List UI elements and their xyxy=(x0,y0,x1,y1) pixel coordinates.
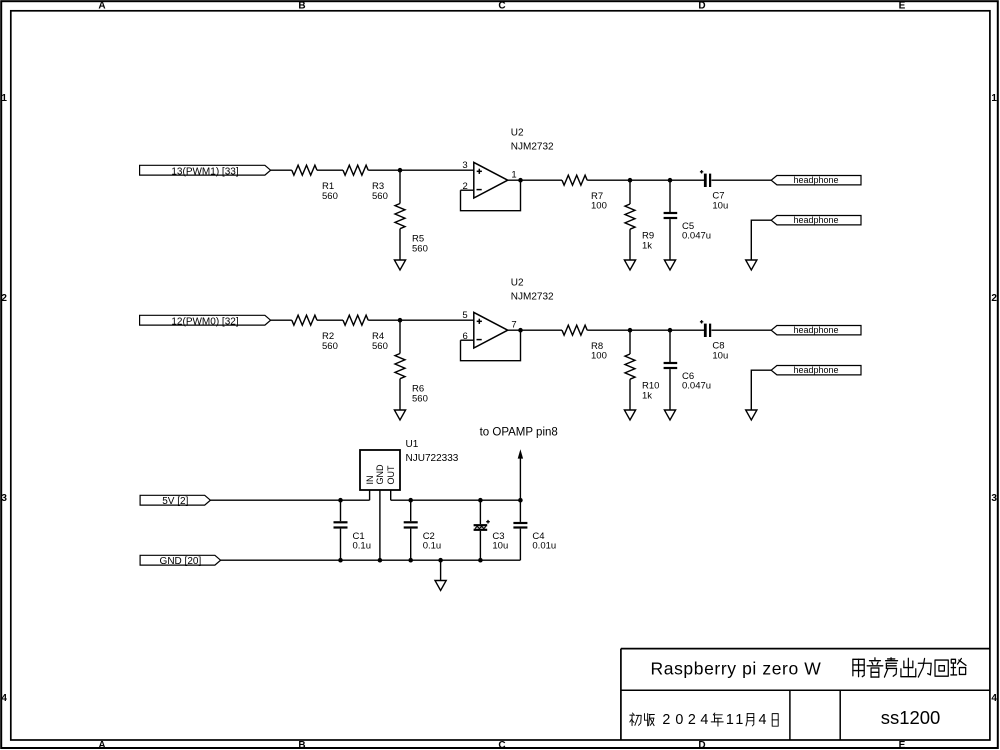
svg-text:1: 1 xyxy=(726,712,734,728)
svg-text:10u: 10u xyxy=(712,200,728,211)
svg-text:Raspberry pi zero W: Raspberry pi zero W xyxy=(651,659,822,679)
svg-text:D: D xyxy=(698,740,705,750)
svg-text:headphone: headphone xyxy=(793,215,838,225)
svg-text:NJM2732: NJM2732 xyxy=(511,141,554,152)
svg-text:4: 4 xyxy=(759,712,767,728)
svg-text:5V [2]: 5V [2] xyxy=(162,496,188,507)
svg-text:ss1200: ss1200 xyxy=(881,707,941,728)
svg-text:1: 1 xyxy=(991,93,997,104)
svg-text:4: 4 xyxy=(1,693,7,704)
svg-text:B: B xyxy=(298,740,305,750)
svg-text:0.047u: 0.047u xyxy=(682,231,711,242)
svg-text:1: 1 xyxy=(735,712,743,728)
svg-text:U2: U2 xyxy=(511,127,524,138)
svg-text:0.1u: 0.1u xyxy=(423,540,442,551)
svg-text:560: 560 xyxy=(412,394,428,405)
svg-text:2: 2 xyxy=(991,293,997,304)
svg-text:GND: GND xyxy=(375,464,385,485)
svg-text:1: 1 xyxy=(1,93,7,104)
svg-text:12(PWM0) [32]: 12(PWM0) [32] xyxy=(171,316,238,327)
svg-text:0.01u: 0.01u xyxy=(532,540,556,551)
svg-text:0: 0 xyxy=(675,712,683,728)
svg-text:headphone: headphone xyxy=(793,175,838,185)
svg-text:0.1u: 0.1u xyxy=(353,540,372,551)
svg-text:C: C xyxy=(498,740,505,750)
svg-text:13(PWM1) [33]: 13(PWM1) [33] xyxy=(171,166,238,177)
svg-text:10u: 10u xyxy=(712,350,728,361)
svg-text:560: 560 xyxy=(372,341,388,352)
svg-text:C: C xyxy=(498,1,505,12)
svg-text:OUT: OUT xyxy=(386,465,396,485)
svg-text:560: 560 xyxy=(322,341,338,352)
svg-text:2: 2 xyxy=(1,293,7,304)
svg-text:D: D xyxy=(698,1,705,12)
svg-text:1k: 1k xyxy=(642,241,652,252)
svg-text:E: E xyxy=(899,740,906,750)
svg-text:0.047u: 0.047u xyxy=(682,381,711,392)
svg-text:A: A xyxy=(98,1,105,12)
svg-text:E: E xyxy=(899,1,906,12)
svg-text:3: 3 xyxy=(462,160,467,171)
svg-text:headphone: headphone xyxy=(793,365,838,375)
svg-text:100: 100 xyxy=(591,201,607,212)
svg-text:U1: U1 xyxy=(406,439,419,450)
svg-text:100: 100 xyxy=(591,351,607,362)
svg-text:1: 1 xyxy=(511,170,516,181)
svg-text:560: 560 xyxy=(322,191,338,202)
svg-text:4: 4 xyxy=(991,693,997,704)
svg-text:2: 2 xyxy=(662,712,670,728)
svg-text:NJM2732: NJM2732 xyxy=(511,291,554,302)
svg-text:B: B xyxy=(298,1,305,12)
svg-text:4: 4 xyxy=(700,712,708,728)
svg-text:5: 5 xyxy=(462,310,467,321)
svg-text:3: 3 xyxy=(991,493,997,504)
svg-text:GND [20]: GND [20] xyxy=(160,556,202,567)
svg-text:1k: 1k xyxy=(642,391,652,402)
svg-text:560: 560 xyxy=(372,191,388,202)
svg-text:NJU722333: NJU722333 xyxy=(406,453,459,464)
svg-text:A: A xyxy=(98,740,105,750)
svg-text:U2: U2 xyxy=(511,277,524,288)
svg-text:10u: 10u xyxy=(492,540,508,551)
svg-text:7: 7 xyxy=(511,320,516,331)
svg-text:2: 2 xyxy=(688,712,696,728)
svg-text:3: 3 xyxy=(1,493,7,504)
svg-text:to OPAMP pin8: to OPAMP pin8 xyxy=(480,426,558,438)
svg-text:IN: IN xyxy=(365,476,375,485)
svg-text:headphone: headphone xyxy=(793,325,838,335)
svg-text:560: 560 xyxy=(412,244,428,255)
